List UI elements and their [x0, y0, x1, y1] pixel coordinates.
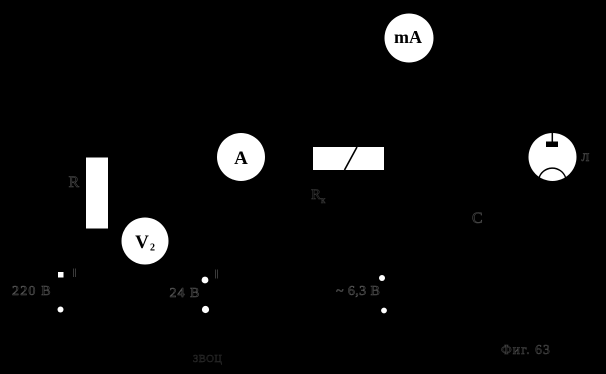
rheostat Rk slider stroke: [345, 147, 358, 170]
anode plate: [546, 142, 558, 148]
terminal 24V bottom: [202, 306, 209, 313]
resistor R: [86, 158, 108, 229]
ammeter A: [217, 133, 265, 181]
svg-text:A: A: [234, 148, 248, 169]
svg-text:R: R: [311, 187, 321, 203]
terminal 6.3V top: [379, 275, 385, 281]
cathode filament arc: [539, 168, 566, 178]
svg-text:220 В: 220 В: [12, 284, 52, 299]
rheostat Rk: [313, 147, 384, 170]
terminal 220V top stem: [74, 269, 76, 278]
terminal 24V top stem: [216, 270, 218, 279]
svg-text:ЗВОЦ: ЗВОЦ: [193, 354, 222, 365]
svg-text:V: V: [135, 232, 149, 253]
terminal 220V bottom: [58, 307, 64, 313]
wire: milliammeter mA branch: [408, 62, 410, 120]
svg-text:2: 2: [150, 243, 155, 254]
wire: resistor R top to ammeter A: [97, 120, 241, 158]
svg-text:~ 6,3 В: ~ 6,3 В: [336, 284, 380, 299]
voltmeter V2: [122, 218, 169, 265]
svg-text:к: к: [321, 195, 326, 205]
milliammeter mA: [385, 14, 434, 63]
terminal 220V top: [58, 272, 64, 278]
terminal 24V top: [202, 277, 209, 284]
svg-text:Л: Л: [582, 152, 590, 164]
lamp tube L (kenotron): [529, 133, 577, 181]
wire: rheostat Rk to lamp: [384, 157, 529, 159]
svg-text:R: R: [69, 174, 80, 191]
terminal 6.3V bottom: [381, 308, 387, 314]
svg-text:Фиг. 63: Фиг. 63: [501, 342, 551, 357]
svg-text:mA: mA: [394, 27, 422, 47]
wire: ammeter A to rheostat Rk: [265, 156, 313, 158]
anode lead: [551, 133, 553, 142]
svg-text:С: С: [472, 210, 483, 227]
svg-text:24 В: 24 В: [170, 286, 201, 301]
wire: 220V top terminal up to resistor R: [61, 190, 87, 275]
